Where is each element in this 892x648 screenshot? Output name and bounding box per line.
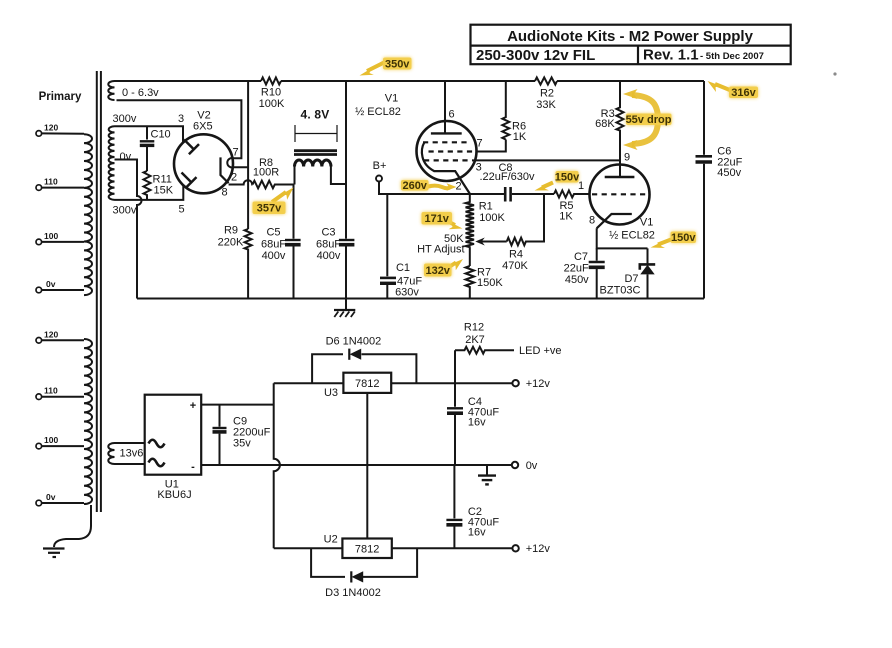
capacitor C4 [447,408,463,413]
svg-text:8: 8 [221,186,227,198]
primary winding upper [84,134,92,295]
V1 triode plate bar [431,132,462,134]
svg-text:150K: 150K [477,277,503,289]
svg-text:2200uF: 2200uF [233,426,271,438]
svg-text:450v: 450v [717,167,741,179]
tube V2 envelope [174,134,233,193]
svg-text:9: 9 [624,151,630,163]
secondary HV winding 300-0-300 [109,126,115,200]
wire 300v top to pin 3 [115,126,184,142]
wire U3 input [274,382,344,384]
wire [42,241,84,243]
heater hook arc at pin 7 [227,158,248,167]
node +12v upper terminal [512,380,518,386]
svg-text:B+: B+ [373,160,387,172]
svg-text:4. 8V: 4. 8V [300,108,329,122]
right bus with capacitor C6 [703,81,705,155]
heater bias vertical line [247,81,249,229]
hatched ground symbol [334,299,355,318]
svg-text:Rev. 1.1: Rev. 1.1 [643,47,699,64]
regulator U2 7812 body [342,539,391,559]
wire V2 cathode to R8 (hop over bias line) [229,180,253,184]
highlight 350v [360,58,412,76]
svg-text:0v: 0v [526,460,538,472]
diode D6 bypass wire [312,354,416,383]
resistor R10 on bias bus [261,78,281,85]
resistor R11 [144,171,151,200]
potentiometer 50K HT Adjust [469,247,471,266]
zener diode D7 [640,248,655,298]
svg-text:6: 6 [448,109,454,121]
terminal 100 (lower) [36,443,42,449]
13v6 winding [108,443,114,464]
svg-text:7812: 7812 [355,544,379,556]
svg-text:55v drop: 55v drop [626,114,672,126]
node 0v terminal [512,462,518,468]
highlight 150v near R5 [535,171,581,191]
svg-text:220K: 220K [218,237,244,249]
wire [42,187,84,189]
diode D3 [351,571,363,582]
wire main + feed vertical (hop over 0v bus) [274,383,280,548]
svg-text:V1: V1 [385,93,398,105]
capacitor C1 [380,194,396,299]
terminal 0v (lower) [36,500,42,506]
svg-text:100: 100 [44,435,58,445]
highlight 357v [253,188,294,215]
svg-text:68K: 68K [595,118,615,130]
dimension line under 4.8V [295,125,337,142]
svg-text:- 5th Dec 2007: - 5th Dec 2007 [700,51,764,62]
wire 13v6 to bridge AC inputs [115,443,145,464]
highlight 171v [422,212,463,229]
wire regulators ground pins [366,393,368,539]
V2 upper plate [184,140,199,155]
highlight 55v drop with curved arrow [623,89,672,150]
svg-text:C5: C5 [266,227,280,239]
svg-text:400v: 400v [262,250,286,262]
node B+ terminal [376,176,382,182]
svg-text:LED +ve: LED +ve [519,345,562,357]
svg-text:300v: 300v [113,205,137,217]
svg-text:C3: C3 [321,227,335,239]
svg-text:C10: C10 [151,129,171,141]
wire C8 to R5 [512,193,554,195]
wire R12/C4 vertical [454,350,456,465]
svg-text:400v: 400v [317,250,341,262]
svg-text:1K: 1K [513,131,527,143]
heater choke coil [295,160,331,167]
svg-text:R12: R12 [464,322,484,334]
capacitor C8 [505,187,510,202]
svg-text:100K: 100K [479,212,505,224]
svg-text:120: 120 [44,123,58,133]
svg-text:1K: 1K [559,210,573,222]
svg-text:D6 1N4002: D6 1N4002 [326,336,382,348]
wire B+ stub to main node wire [379,182,504,195]
pot wiper arrow [481,241,507,243]
svg-text:22uF: 22uF [564,263,589,275]
svg-text:-: - [191,461,195,473]
highlight 132v [424,259,463,277]
capacitor C9 [213,405,227,465]
ground bus of HT section [137,298,704,300]
svg-text:120: 120 [44,329,58,339]
svg-text:½ ECL82: ½ ECL82 [355,106,401,118]
svg-text:350v: 350v [385,58,410,70]
title block frame [471,25,791,64]
resistor R9 [245,229,252,299]
resistor R3 [617,81,624,160]
wire U2 input [274,547,343,549]
svg-text:171v: 171v [424,213,449,225]
highlight 260v [401,180,457,192]
wire heater 6.3v end to pin 7 [117,100,242,158]
svg-text:R9: R9 [224,225,238,237]
wire U2 output [392,547,512,549]
svg-text:V1: V1 [640,216,653,228]
svg-text:316v: 316v [731,87,756,99]
wire pentode cathode down [597,228,648,248]
tube V1 triode envelope [417,121,477,181]
svg-text:100: 100 [44,231,58,241]
wire [42,289,84,291]
wire B+ rail vertical x=346 [345,81,347,184]
svg-text:100K: 100K [259,98,285,110]
diode D3 bypass wire [311,548,417,577]
capacitor C7 [589,248,605,298]
wire pin 9 into plate [619,160,621,177]
V2 lower plate [182,173,197,188]
terminal 120 (lower) [36,338,42,344]
terminal 110 (upper) [36,185,42,191]
V1 triode grid dashes row1 [423,141,468,143]
svg-text:357v: 357v [257,203,282,215]
svg-text:630v: 630v [395,286,419,298]
wire heater top = bias bus start [115,80,262,82]
heater choke core bars [294,151,337,155]
wire 350v bus R10 to R2 [281,80,535,82]
resistor R2 on 350v bus [535,77,557,84]
svg-text:110: 110 [44,386,58,396]
primary winding lower [84,339,92,504]
regulator U3 7812 body [343,373,391,393]
svg-text:68uF: 68uF [316,239,341,251]
svg-text:3: 3 [178,113,184,125]
terminal 110 (lower) [36,394,42,400]
svg-text:+: + [190,400,196,412]
choke right lead [331,167,346,185]
svg-text:450v: 450v [565,274,589,286]
V1 triode cathode hook [422,142,470,194]
svg-text:KBU6J: KBU6J [157,489,191,501]
resistor R5 [554,191,590,198]
svg-text:7: 7 [476,137,482,149]
svg-text:2: 2 [455,180,461,192]
svg-text:8: 8 [589,215,595,227]
svg-text:V2: V2 [197,109,210,121]
resistor R1 [466,194,474,247]
highlight 316v [708,81,759,99]
wire [42,132,84,134]
V1 pentode grid dashes [592,193,648,195]
svg-text:470K: 470K [502,260,528,272]
svg-text:250-300v 12v FIL: 250-300v 12v FIL [476,47,595,64]
V1 pentode cathode [597,214,632,228]
svg-text:+12v: +12v [526,543,551,555]
svg-text:0v: 0v [120,151,132,163]
svg-text:6X5: 6X5 [193,121,213,133]
svg-text:100R: 100R [253,167,279,179]
small scan dot [833,72,836,75]
wire [42,502,84,504]
svg-text:U3: U3 [324,387,338,399]
V1 triode grid dashes row2 (pin 7) [429,150,477,152]
svg-text:260v: 260v [402,180,427,192]
V1 triode grid dashes row3 (pin 3) [424,159,473,161]
svg-text:5: 5 [178,204,184,216]
terminal 100 (upper) [36,239,42,245]
svg-text:2K7: 2K7 [465,334,485,346]
wire pin 6 from 350v bus [444,81,446,133]
svg-text:+12v: +12v [526,378,551,390]
diode D6 [349,349,361,360]
resistor R7 [466,266,474,299]
choke left lead to R8/C5 junction [294,167,296,185]
svg-text:7812: 7812 [355,378,379,390]
svg-text:Primary: Primary [39,91,82,103]
svg-text:AudioNote Kits - M2 Power Supp: AudioNote Kits - M2 Power Supply [507,28,754,45]
svg-text:0v: 0v [46,279,56,289]
resistor R6 [502,81,509,140]
svg-text:R1: R1 [479,200,493,212]
earth symbol at 0v [478,465,496,484]
svg-text:110: 110 [44,177,58,187]
wire pin 7 to R6 [476,140,506,152]
wire 0v tap down to ground bus (hop over 300v wire) [115,160,142,299]
capacitor C5 [285,185,301,299]
chassis earth wire bottom-left [54,505,91,547]
svg-text:13v6: 13v6 [120,448,144,460]
capacitor C2 [446,465,462,548]
svg-text:0 - 6.3v: 0 - 6.3v [122,87,159,99]
0v bus [201,464,512,466]
node +12v lower terminal [512,545,518,551]
svg-text:½ ECL82: ½ ECL82 [609,229,655,241]
terminal 0v (upper) [36,287,42,293]
svg-text:300v: 300v [113,113,137,125]
wire bridge + output [201,404,274,406]
capacitor C3 [339,184,355,299]
svg-text:132v: 132v [425,265,450,277]
svg-text:35v: 35v [233,438,251,450]
svg-text:D3 1N4002: D3 1N4002 [325,587,381,599]
svg-text:HT Adjust: HT Adjust [417,244,465,256]
earth ground symbol [43,549,65,558]
transformer core [97,71,101,512]
highlight 150v near D7 [651,232,697,249]
wire [42,396,84,398]
svg-text:C1: C1 [396,262,410,274]
svg-text:2: 2 [231,171,237,183]
svg-text:U2: U2 [324,534,338,546]
resistor R8 [253,181,294,189]
svg-text:.22uF/630v: .22uF/630v [479,171,535,183]
wire [42,445,84,447]
resistor R4 [507,194,544,245]
capacitor C6 [696,156,713,298]
svg-text:15K: 15K [154,185,174,197]
tube V1 pentode envelope [590,165,650,225]
wire 300v bottom to pin 5 [115,186,184,200]
svg-text:7: 7 [232,146,238,158]
U1 AC marks [149,440,165,448]
V1 pentode plate bar [605,176,635,178]
svg-text:33K: 33K [536,99,556,111]
svg-text:D7: D7 [624,273,638,285]
svg-text:16v: 16v [468,527,486,539]
secondary heater winding 0-6.3v [108,81,114,100]
wire U3 output [391,382,512,384]
svg-text:C7: C7 [574,251,588,263]
V2 cathode bracket [221,157,229,183]
svg-text:R4: R4 [509,248,523,260]
wire [42,339,84,341]
bridge rectifier U1 body [145,395,202,475]
svg-text:R10: R10 [261,87,281,99]
svg-text:150v: 150v [671,232,696,244]
resistor R12 [455,347,514,354]
svg-text:68uF: 68uF [261,239,286,251]
svg-text:150v: 150v [555,171,580,183]
svg-text:16v: 16v [468,417,486,429]
capacitor C10 [140,126,155,172]
wire pin 3 to pentode pin 9 node [473,159,621,161]
wire 316v bus R2 to right corner [557,80,704,82]
svg-text:0v: 0v [46,492,56,502]
terminal 120 (upper) [36,131,42,137]
svg-text:BZT03C: BZT03C [600,284,641,296]
